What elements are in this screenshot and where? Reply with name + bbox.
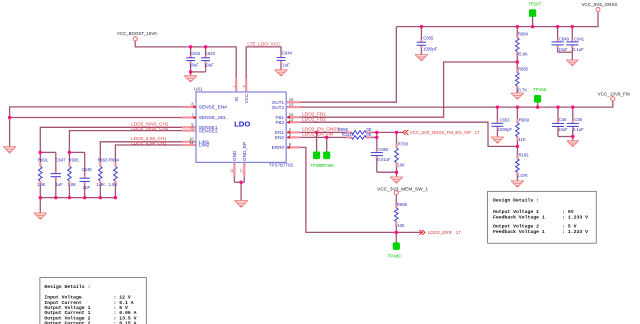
svg-text:1uF: 1uF [83,185,91,190]
svg-text:11K: 11K [519,137,526,142]
svg-text:ERR#: ERR# [272,145,285,150]
svg-text:LDO: LDO [234,120,250,129]
svg-text:VCC: VCC [244,93,249,104]
svg-text:C642: C642 [190,51,201,56]
svg-text:10uF: 10uF [558,127,568,132]
svg-text:LDO2_FB1: LDO2_FB1 [302,112,326,117]
svg-text:10K: 10K [397,223,405,228]
svg-text:0.1uF: 0.1uF [573,127,584,132]
svg-text:TP166: TP166 [533,87,546,92]
svg-text:TPS7B7702: TPS7B7702 [269,163,294,168]
svg-text:C647: C647 [56,157,67,162]
svg-text:0.01uF: 0.01uF [378,157,391,162]
svg-text:17: 17 [240,169,244,173]
svg-text:R1148: R1148 [342,132,355,137]
svg-text:C641: C641 [574,36,585,41]
svg-text:GND_EP: GND_EP [242,142,247,161]
svg-text:R688: R688 [397,202,408,207]
svg-text:Output Voltage 2 : 5 V: Output Voltage 2 : 5 V [493,224,577,230]
svg-text:VCC_5V0_GNSS_FM_EN_VIP 17: VCC_5V0_GNSS_FM_EN_VIP 17 [410,130,480,135]
svg-text:C644: C644 [282,51,293,56]
svg-text:EN2: EN2 [275,135,285,140]
svg-text:10uF: 10uF [189,62,199,67]
svg-text:Input Voltage : 12 V: Input Voltage : 12 V [44,295,130,301]
svg-text:10.7K: 10.7K [516,87,527,92]
svg-text:R695: R695 [69,157,80,162]
svg-text:12: 12 [230,169,234,173]
svg-text:VCC_3V3_MEM_SW_1: VCC_3V3_MEM_SW_1 [377,186,428,192]
svg-text:R958: R958 [338,127,349,132]
svg-text:LDO2_FB2: LDO2_FB2 [302,117,326,122]
svg-text:R691: R691 [38,157,49,162]
svg-text:0E: 0E [366,132,371,137]
svg-text:Output Current 1 : 0.06: Output Current 1 : 0.06 A [44,310,136,316]
svg-text:Feedback Voltage 1 : 1.23: Feedback Voltage 1 : 1.233 V [493,214,588,220]
svg-text:C56: C56 [574,117,582,122]
svg-text:OUT2: OUT2 [272,105,285,110]
svg-text:FB2: FB2 [275,120,284,125]
svg-text:R694: R694 [109,157,120,162]
svg-text:C660: C660 [378,147,389,152]
svg-text:Output Voltage 2 : 13.5: Output Voltage 2 : 13.5 V [44,315,136,321]
svg-text:Output Voltage 1 : 5V: Output Voltage 1 : 5V [493,209,574,215]
svg-text:C640: C640 [559,36,570,41]
svg-text:Design Details :: Design Details : [44,284,90,290]
svg-text:EN1: EN1 [275,130,285,135]
svg-text:SENSE2: SENSE2 [199,128,218,134]
svg-text:1000pF: 1000pF [423,47,438,52]
svg-text:1.8K: 1.8K [68,182,77,187]
svg-text:TP167: TP167 [528,2,541,7]
svg-text:LDO2_ILIM_CH2: LDO2_ILIM_CH2 [131,141,167,146]
svg-text:14: 14 [289,102,294,107]
svg-text:Output Voltage 1 : 5 V: Output Voltage 1 : 5 V [44,305,128,311]
svg-text:LDO2_ERR 17: LDO2_ERR 17 [428,230,462,235]
svg-text:10K: 10K [398,162,406,167]
svg-text:Feedback Voltage 1 : 1.23: Feedback Voltage 1 : 1.233 V [493,229,588,235]
svg-text:4: 4 [242,85,246,87]
svg-text:OUT1: OUT1 [272,100,285,105]
svg-text:Input Current : 0.1: Input Current : 0.1 A [44,300,133,306]
svg-text:TP485: TP485 [322,163,335,168]
svg-text:U61: U61 [194,86,203,91]
svg-text:GND: GND [232,150,237,161]
svg-text:C643: C643 [205,51,216,56]
svg-text:0E: 0E [366,127,371,132]
svg-text:10uF: 10uF [558,47,568,52]
svg-text:SENSE_SEL: SENSE_SEL [199,115,227,121]
svg-text:R708: R708 [398,141,409,146]
svg-text:VCC_6V5_GNSS: VCC_6V5_GNSS [581,2,617,7]
svg-text:45.9K: 45.9K [517,52,528,57]
svg-text:1.8K: 1.8K [96,182,105,187]
svg-text:Output Current 2 : 0.15: Output Current 2 : 0.15 A [44,321,136,324]
svg-text:LDO2_EN_FM: LDO2_EN_FM [302,132,333,137]
svg-text:R163: R163 [519,153,530,158]
svg-text:16: 16 [289,97,294,102]
svg-text:FB1: FB1 [275,115,284,120]
svg-text:1: 1 [232,85,236,87]
svg-text:1uF: 1uF [283,62,291,67]
svg-text:C46: C46 [559,117,567,122]
svg-text:0.1uF: 0.1uF [573,47,584,52]
svg-text:SENSE_EN#: SENSE_EN# [199,105,228,111]
svg-text:R693: R693 [98,157,109,162]
svg-text:C653: C653 [500,117,511,122]
svg-text:LIM2: LIM2 [199,143,210,149]
svg-text:R685: R685 [518,67,529,72]
svg-text:15: 15 [289,112,294,117]
svg-text:1.8K: 1.8K [109,182,118,187]
svg-text:VCC_BOOST_15V0: VCC_BOOST_15V0 [117,31,157,36]
svg-text:1000pF: 1000pF [498,127,513,132]
svg-text:TP490: TP490 [388,254,401,259]
svg-text:13: 13 [289,117,294,122]
svg-text:Design Details :: Design Details : [493,198,539,204]
svg-text:10uF: 10uF [204,62,214,67]
svg-text:11: 11 [189,140,194,145]
svg-text:IN: IN [234,97,239,102]
svg-text:R684: R684 [518,31,529,36]
svg-text:LDO2_EN_GNSS: LDO2_EN_GNSS [302,127,339,132]
svg-text:1uF: 1uF [56,182,64,187]
svg-text:1.07K: 1.07K [517,173,528,178]
svg-text:VCC_13V9_FM: VCC_13V9_FM [598,92,630,97]
svg-text:LDO2_ISNS_CH2: LDO2_ISNS_CH2 [131,126,168,131]
svg-text:LTE_LDO_VCC: LTE_LDO_VCC [247,41,281,46]
svg-text:C655: C655 [423,36,434,41]
svg-text:R669: R669 [519,117,530,122]
svg-text:1.8K: 1.8K [37,182,46,187]
svg-text:C648: C648 [82,167,93,172]
